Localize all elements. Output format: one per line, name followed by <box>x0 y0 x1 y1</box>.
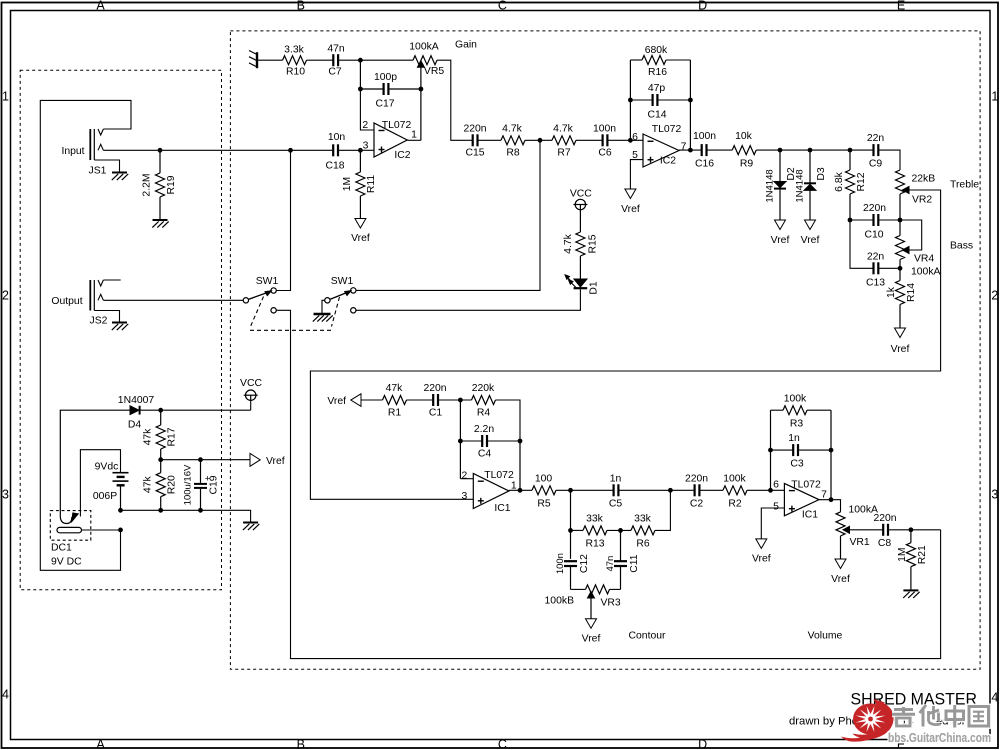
resistor R21 1M <box>897 530 928 590</box>
svg-text:100: 100 <box>535 473 553 484</box>
svg-text:R15: R15 <box>587 234 598 253</box>
svg-text:4.7k: 4.7k <box>563 233 574 253</box>
svg-text:Vref: Vref <box>621 204 640 215</box>
wire feedback left column <box>629 60 631 140</box>
svg-text:47n: 47n <box>605 556 616 572</box>
resistor R10 3.3k <box>283 44 307 77</box>
svg-text:Input: Input <box>61 146 84 157</box>
svg-text:IC1: IC1 <box>494 503 510 514</box>
svg-text:JS1: JS1 <box>89 166 107 177</box>
wire JS1 sleeve to ground <box>94 160 119 172</box>
wire input row JS1 tip to C18 <box>103 149 333 151</box>
wire C3 right column <box>830 410 832 500</box>
watermark text <box>892 705 989 728</box>
wire R13 row left column <box>570 490 572 559</box>
wire C5 to C2 <box>618 489 695 491</box>
wire Vref rail <box>161 459 250 461</box>
resistor R9 10k <box>732 131 756 169</box>
wire VR3 wiper to Vref <box>590 597 592 619</box>
svg-text:680k: 680k <box>645 45 668 56</box>
diode D2 1N4148 <box>765 150 798 220</box>
DC jack DC1 <box>50 511 91 568</box>
wire JS2 tip to SW1 common <box>103 299 243 301</box>
wire C8 to volume out <box>888 529 941 531</box>
svg-text:4.7k: 4.7k <box>502 123 522 134</box>
svg-text:Output: Output <box>51 296 82 307</box>
wire C13 right <box>878 267 900 269</box>
node C4 right <box>518 439 523 444</box>
svg-text:Vref: Vref <box>771 235 790 246</box>
svg-text:A: A <box>96 0 105 12</box>
svg-text:1n: 1n <box>788 433 800 444</box>
node battery minus/pin <box>118 528 123 533</box>
svg-text:2: 2 <box>991 288 998 302</box>
svg-text:IC1: IC1 <box>802 509 818 520</box>
wire VR1 bottom to Vref <box>840 536 842 559</box>
ground (SW1) <box>314 313 331 316</box>
svg-text:Vref: Vref <box>752 554 771 565</box>
svg-text:DC1: DC1 <box>51 543 72 554</box>
Vref input arrow (R1) <box>327 394 361 407</box>
wire VR4 wiper loop <box>900 220 922 250</box>
wire VR1 wiper to C8 <box>850 529 884 531</box>
op-amp IC2 (a) TL072 <box>362 120 417 161</box>
wire VR5 to C15 column <box>437 60 473 140</box>
svg-text:R3: R3 <box>790 419 804 430</box>
svg-text:C18: C18 <box>325 161 344 172</box>
svg-text:R5: R5 <box>537 499 551 510</box>
svg-text:R19: R19 <box>166 175 177 194</box>
resistor R1 47k <box>383 383 407 418</box>
capacitor C14 47p <box>647 83 666 120</box>
resistor R14 1k <box>886 281 917 329</box>
wire gnd to R10 <box>257 59 283 61</box>
svg-text:100k: 100k <box>784 393 807 404</box>
power VCC (R15) <box>570 188 592 209</box>
svg-text:1: 1 <box>411 129 417 140</box>
wire ground rail y=510 <box>121 510 251 521</box>
svg-text:1: 1 <box>991 89 998 103</box>
node IC2b output <box>688 148 693 153</box>
battery B1 9V <box>80 450 128 517</box>
svg-text:D: D <box>698 738 707 750</box>
capacitor C1 220n <box>423 383 446 418</box>
svg-text:Treble: Treble <box>950 180 979 191</box>
resistor R12 6.8k <box>834 150 867 220</box>
svg-text:VR2: VR2 <box>912 195 932 206</box>
node R5/C5/R13 <box>568 488 573 493</box>
svg-text:4: 4 <box>2 687 9 701</box>
svg-text:VCC: VCC <box>240 378 262 389</box>
svg-text:006P: 006P <box>93 491 117 502</box>
svg-text:10n: 10n <box>328 132 346 143</box>
svg-text:Vref: Vref <box>891 344 910 355</box>
wire R1 to C1 <box>407 399 434 401</box>
SW1 mechanical coupling dashes <box>251 297 264 327</box>
resistor R11 1M <box>342 150 377 218</box>
svg-text:TL072: TL072 <box>382 120 412 131</box>
wire C4 left column <box>459 400 461 479</box>
wire C13 left branch <box>850 220 874 268</box>
svg-text:47k: 47k <box>386 383 404 394</box>
wire IC1b pin5 to Vref <box>761 508 784 539</box>
svg-text:4: 4 <box>991 690 998 704</box>
svg-text:C: C <box>498 0 507 12</box>
svg-text:1: 1 <box>2 89 9 103</box>
jack JS2 (Output) <box>51 280 107 327</box>
wire R9 to tone stack <box>756 149 873 151</box>
svg-text:R8: R8 <box>506 148 520 159</box>
wire C2 to R2 <box>699 489 723 491</box>
potentiometer VR2 22kB (Treble) <box>896 170 936 206</box>
node D3 <box>808 148 813 153</box>
node C7/VR5/C17 junction <box>358 58 363 63</box>
wire R4 to output column <box>496 400 521 441</box>
svg-text:2.2n: 2.2n <box>474 424 494 435</box>
Vref (D2) <box>775 220 786 230</box>
wire VR2 bottom <box>899 194 901 236</box>
resistor R13 33k <box>583 514 607 550</box>
node C19 top <box>198 457 203 462</box>
resistor R2 100k <box>723 473 747 509</box>
svg-text:R2: R2 <box>728 499 742 510</box>
wire C17 left branch <box>359 60 361 89</box>
wire IC1a pin2 <box>460 478 473 480</box>
node junction R19 <box>158 148 163 153</box>
wire DC1 pin to battery minus <box>82 529 121 531</box>
svg-text:R14: R14 <box>906 283 917 302</box>
node R17 top <box>158 408 163 413</box>
svg-text:22n: 22n <box>867 133 885 144</box>
capacitor C17 100p <box>374 72 397 109</box>
op-amp IC1 (a) TL072 <box>462 470 517 514</box>
node R20 bottom <box>158 508 163 513</box>
svg-text:3: 3 <box>2 487 9 501</box>
svg-text:33k: 33k <box>634 514 652 525</box>
svg-text:C13: C13 <box>866 278 885 289</box>
Vref (D3) <box>805 220 816 230</box>
node C3 left <box>768 448 773 453</box>
capacitor C15 220n <box>463 123 486 158</box>
wire R10 to C7 <box>307 59 334 61</box>
svg-text:R6: R6 <box>636 539 650 550</box>
ground (R21) <box>903 589 918 591</box>
node C14 left <box>628 98 633 103</box>
svg-text:R12: R12 <box>856 172 867 191</box>
svg-text:R21: R21 <box>917 545 928 564</box>
svg-text:100u/16V: 100u/16V <box>183 464 194 505</box>
wire R8 to R7 <box>525 139 552 141</box>
resistor R19 2.2M <box>142 150 177 219</box>
op-amp IC2 (b) TL072 <box>632 124 687 167</box>
capacitor C16 100n <box>693 131 716 169</box>
svg-text:C6: C6 <box>598 148 612 159</box>
svg-text:220n: 220n <box>423 383 446 394</box>
potentiometer VR3 100kB (Contour) <box>545 585 621 609</box>
svg-text:R17: R17 <box>167 427 178 446</box>
ground (R10 input network) <box>256 52 258 68</box>
svg-text:2: 2 <box>362 120 368 131</box>
svg-text:R20: R20 <box>167 475 178 494</box>
capacitor C7 47n <box>327 43 345 77</box>
wire IC1a output <box>509 489 532 491</box>
svg-text:47n: 47n <box>327 43 345 54</box>
wire Vref to R1 <box>361 399 383 401</box>
svg-text:C16: C16 <box>695 158 714 169</box>
svg-text:5: 5 <box>773 502 779 513</box>
Vref (VR1) <box>835 559 846 569</box>
wire SW1 left throwA to input row <box>276 150 290 290</box>
svg-text:Gain: Gain <box>455 40 477 51</box>
wire C14 row <box>630 99 652 101</box>
svg-text:100n: 100n <box>555 553 566 574</box>
svg-text:220n: 220n <box>873 513 896 524</box>
svg-text:100kA: 100kA <box>911 266 941 277</box>
svg-text:Vref: Vref <box>801 235 820 246</box>
svg-text:Vref: Vref <box>266 456 285 467</box>
svg-text:6.8k: 6.8k <box>834 171 845 191</box>
svg-text:3: 3 <box>991 487 998 501</box>
svg-text:220n: 220n <box>863 203 886 214</box>
svg-text:VR5: VR5 <box>424 66 444 77</box>
capacitor C6 100n <box>593 123 616 158</box>
wire C16 to R9 <box>706 149 732 151</box>
svg-text:22kB: 22kB <box>912 174 936 185</box>
svg-text:C10: C10 <box>864 229 883 240</box>
resistor R4 220k <box>472 383 496 418</box>
svg-text:A: A <box>96 738 105 750</box>
Vref (VR3) <box>586 619 597 629</box>
svg-text:C12: C12 <box>579 554 590 573</box>
svg-text:TL072: TL072 <box>484 470 514 481</box>
svg-text:47k: 47k <box>143 428 154 446</box>
svg-text:1M: 1M <box>342 177 353 191</box>
svg-text:47k: 47k <box>143 476 154 494</box>
svg-text:C5: C5 <box>609 499 623 510</box>
capacitor C2 220n <box>685 473 708 509</box>
node R13/R6/C11 <box>618 528 623 533</box>
wire C18 to IC2 pin3 <box>338 149 361 151</box>
svg-text:9V DC: 9V DC <box>51 557 82 568</box>
Vref (IC1b pin5) <box>756 539 767 549</box>
svg-text:7: 7 <box>681 142 687 153</box>
wire R13 leads <box>571 529 584 531</box>
resistor R15 4.7k <box>563 210 598 279</box>
svg-text:R11: R11 <box>366 175 377 194</box>
svg-text:100kB: 100kB <box>545 596 575 607</box>
node IC1 pin6 <box>768 488 773 493</box>
svg-text:Contour: Contour <box>629 630 667 641</box>
node C17 right <box>419 87 424 92</box>
node C1/R4/C4 <box>458 398 463 403</box>
wire JS1 ring loop to battery switch column <box>40 100 131 570</box>
watermark logo <box>841 699 991 745</box>
svg-text:3.3k: 3.3k <box>284 44 304 55</box>
wire C15 to R8 <box>477 139 501 141</box>
wire C9 to VR2 <box>878 150 900 170</box>
svg-text:22n: 22n <box>867 251 885 262</box>
resistor R20 47k <box>143 460 178 511</box>
main circuit dashed box <box>230 31 980 669</box>
diode D4 1N4007 <box>118 395 155 430</box>
potentiometer VR1 100kA (Volume) <box>836 504 878 548</box>
svg-text:TL072: TL072 <box>791 479 821 490</box>
svg-text:1N4007: 1N4007 <box>118 395 155 406</box>
svg-text:Vref: Vref <box>351 233 370 244</box>
wire VR4 bottom <box>899 260 901 281</box>
wire JS2 sleeve to ground <box>94 311 119 322</box>
node C17 left <box>358 87 363 92</box>
svg-text:100kA: 100kA <box>409 41 439 52</box>
svg-text:C4: C4 <box>478 448 492 459</box>
wire SW1 right common to ground <box>322 300 325 313</box>
svg-text:100n: 100n <box>693 131 716 142</box>
jack JS1 (Input) <box>61 129 106 177</box>
node R21 top <box>909 527 914 532</box>
ground (supply rail) <box>243 522 258 524</box>
capacitor C4 2.2n <box>474 424 494 459</box>
svg-text:33k: 33k <box>586 514 604 525</box>
svg-text:B: B <box>297 0 305 12</box>
wire R16 top row <box>630 59 642 61</box>
node C3 right <box>829 448 834 453</box>
node battery minus rail <box>118 508 123 513</box>
svg-text:VCC: VCC <box>570 188 592 199</box>
capacitor C9 22n <box>867 133 885 169</box>
node IC2 pin3 <box>358 148 363 153</box>
svg-text:10k: 10k <box>735 131 753 142</box>
svg-text:E: E <box>897 0 905 12</box>
wire C4 to IC1a output <box>519 441 521 490</box>
svg-text:6: 6 <box>632 132 638 143</box>
wire R6 right to C5/C2 node <box>655 490 670 530</box>
resistor R5 100 <box>532 473 556 509</box>
wire C17 right to wiper/output column <box>388 88 421 90</box>
svg-text:IC2: IC2 <box>660 156 676 167</box>
node C10 left <box>848 218 853 223</box>
svg-text:1N4148: 1N4148 <box>765 169 776 202</box>
wire R2 to IC1 pin6 <box>747 489 784 491</box>
wire C6 to IC2 pin6 <box>607 139 643 141</box>
wire SW1 right throwA to R7/R8 node <box>356 140 540 290</box>
wire C3 row <box>771 449 794 451</box>
svg-text:C7: C7 <box>328 67 342 78</box>
node IC1a output <box>518 488 523 493</box>
ground (R19) <box>153 219 168 221</box>
svg-text:C1: C1 <box>429 407 443 418</box>
svg-text:3: 3 <box>462 491 468 502</box>
resistor R7 4.7k <box>552 123 576 158</box>
svg-text:2.2M: 2.2M <box>142 173 153 196</box>
svg-text:220k: 220k <box>472 383 495 394</box>
svg-text:R9: R9 <box>740 158 754 169</box>
wire SW1 left throwB to volume out <box>276 310 940 658</box>
svg-text:Vref: Vref <box>327 396 346 407</box>
svg-text:1: 1 <box>511 480 517 491</box>
svg-text:R10: R10 <box>286 67 305 78</box>
svg-text:bbs.GuitarChina.com: bbs.GuitarChina.com <box>888 731 991 745</box>
wire C3 left column <box>770 410 772 490</box>
node C5/C2/R6 <box>668 488 673 493</box>
svg-text:100n: 100n <box>593 123 616 134</box>
svg-text:47p: 47p <box>648 83 666 94</box>
svg-text:3: 3 <box>363 140 369 151</box>
svg-text:Vref: Vref <box>582 634 601 645</box>
node R13 left <box>568 528 573 533</box>
resistor R8 4.7k <box>501 123 525 158</box>
wire IC2a pin3 lead <box>360 149 374 151</box>
svg-text:SW1: SW1 <box>331 276 354 287</box>
capacitor C13 22n <box>866 251 885 288</box>
svg-text:C9: C9 <box>869 158 883 169</box>
wire IC1b output <box>819 500 841 512</box>
svg-text:220n: 220n <box>463 123 486 134</box>
potentiometer VR5 100kA (Gain) <box>409 41 444 77</box>
svg-text:6: 6 <box>773 480 779 491</box>
svg-text:Vref: Vref <box>831 574 850 585</box>
node C10 right <box>898 218 903 223</box>
wire IC2b pin5 to Vref <box>630 160 643 189</box>
wire IC2a output <box>407 139 421 141</box>
svg-text:R4: R4 <box>477 407 491 418</box>
capacitor C8 220n <box>873 513 896 549</box>
resistor R16 680k <box>642 45 668 78</box>
svg-text:C: C <box>498 738 507 750</box>
svg-text:R16: R16 <box>648 67 667 78</box>
svg-text:TL072: TL072 <box>652 124 682 135</box>
svg-text:9Vdc: 9Vdc <box>95 461 119 472</box>
svg-text:C8: C8 <box>878 538 892 549</box>
DC jack switch arrow <box>72 513 78 522</box>
capacitor C3 1n <box>788 433 804 469</box>
Vref output arrow <box>250 453 285 467</box>
node IC2 pin6 <box>628 138 633 143</box>
node junction bypass <box>288 148 293 153</box>
capacitor C12 100n <box>555 553 590 589</box>
capacitor C5 1n <box>609 473 623 509</box>
svg-text:SW1: SW1 <box>256 276 279 287</box>
Vref (R14) <box>895 328 906 338</box>
op-amp IC1 (b) TL072 <box>773 479 827 520</box>
capacitor C11 47n <box>605 530 640 589</box>
node bypass junction <box>538 138 543 143</box>
svg-text:D4: D4 <box>128 419 142 430</box>
svg-text:R7: R7 <box>557 148 571 159</box>
node C4 left <box>458 439 463 444</box>
power/jacks section dashed box <box>20 70 221 590</box>
node D2 <box>778 148 783 153</box>
Vref (IC2b pin5) <box>625 189 636 199</box>
svg-text:JS2: JS2 <box>90 316 108 327</box>
switch SW1 (left pole) <box>243 276 278 313</box>
svg-text:D: D <box>698 0 707 12</box>
wire R7 to C6 <box>576 139 603 141</box>
svg-text:D3: D3 <box>816 167 827 181</box>
svg-text:1N4148: 1N4148 <box>795 169 806 202</box>
svg-text:VR3: VR3 <box>601 598 621 609</box>
svg-text:Bass: Bass <box>950 241 973 252</box>
wire C1 to R4 <box>438 399 472 401</box>
svg-text:C19: C19 <box>208 475 219 494</box>
wire SW1 right throwB to LED <box>356 290 581 311</box>
wire JS2 ring stub <box>103 279 120 281</box>
node C13/R14 <box>898 266 903 271</box>
svg-text:C3: C3 <box>790 459 804 470</box>
node R12 top <box>848 148 853 153</box>
Vref (R11) <box>355 219 366 229</box>
svg-text:C17: C17 <box>375 98 394 109</box>
ground (JS2 sleeve) <box>112 322 127 324</box>
